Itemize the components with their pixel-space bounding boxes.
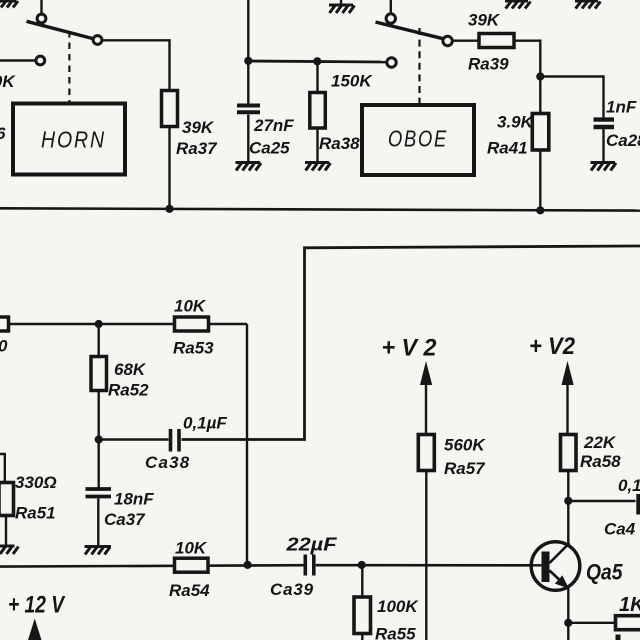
transistor base wire inside	[529, 564, 542, 566]
wire top to OBOE switch	[390, 0, 392, 14]
arrow +V2 second	[562, 361, 574, 435]
ground under Ra51	[0, 546, 19, 554]
switch S-oboe moving contact	[443, 36, 452, 45]
svg-text:1nF: 1nF	[606, 98, 637, 117]
wire Ra55 column	[361, 565, 363, 640]
base wire to transistor	[316, 564, 542, 567]
transistor collector line	[550, 543, 570, 563]
svg-text:Ra51: Ra51	[15, 504, 56, 523]
wire Ra39 to corner down	[514, 41, 540, 77]
switch S-oboe top contact	[386, 14, 395, 23]
svg-text:HORN: HORN	[41, 127, 106, 153]
svg-text:Ra52: Ra52	[108, 381, 149, 400]
wire top to Ca25 junction	[247, 0, 249, 104]
capacitor Ca28 plates	[594, 120, 615, 127]
svg-text:Ca38: Ca38	[145, 453, 190, 472]
node R437/bus	[165, 205, 173, 213]
svg-text:18nF: 18nF	[114, 490, 154, 509]
node Ra41/bus	[536, 206, 544, 214]
wire node to 1K	[568, 622, 616, 624]
svg-text:100K: 100K	[377, 597, 419, 616]
svg-text:22K: 22K	[583, 433, 617, 452]
svg-text:1K: 1K	[619, 594, 640, 616]
resistor Ra38 150K body	[310, 93, 326, 129]
svg-text:10K: 10K	[174, 297, 207, 316]
node Ca38 branch	[95, 435, 103, 443]
svg-text:3.9K: 3.9K	[497, 113, 535, 132]
svg-text:Ra38: Ra38	[319, 134, 360, 153]
transistor emitter arrow	[555, 575, 569, 588]
node Ca41 branch	[564, 497, 572, 505]
node Ra55 top	[358, 561, 366, 569]
ground under Ra38	[305, 163, 331, 171]
svg-text:27nF: 27nF	[253, 116, 294, 135]
wire contact to Ra39	[453, 40, 479, 42]
node Ca25 top	[244, 57, 252, 65]
ground under Ca28	[591, 163, 617, 171]
wire Ra51 to ground	[5, 516, 7, 546]
svg-text:150K: 150K	[0, 72, 16, 91]
wire node to Ca38	[99, 438, 169, 440]
svg-text:Ra53: Ra53	[173, 339, 214, 358]
svg-text:39K: 39K	[468, 11, 501, 30]
ground top-right 1	[505, 1, 531, 9]
ground under Ca37	[85, 547, 112, 555]
svg-text:Ca4: Ca4	[604, 520, 636, 539]
capacitor Ca25 plates	[237, 106, 260, 113]
capacitor Ca41 plate	[636, 494, 640, 515]
switch S-horn lever	[27, 21, 94, 38]
svg-text:0: 0	[0, 337, 8, 356]
resistor 1K body	[616, 616, 640, 630]
wire junction to OBOE lower contact	[248, 61, 386, 62]
svg-text:Ra54: Ra54	[169, 581, 210, 600]
ground top-right 2	[575, 1, 601, 9]
switch S-oboe lever	[376, 22, 444, 39]
svg-text:Ra39: Ra39	[468, 55, 509, 74]
resistor Ra55 100K body	[354, 597, 371, 634]
svg-text:+ V2: + V2	[529, 333, 576, 360]
switch S-horn top contact	[37, 14, 46, 23]
resistor Ra51 330 body	[0, 483, 14, 516]
svg-text:6: 6	[0, 124, 6, 143]
svg-text:68K: 68K	[114, 360, 147, 379]
wire node to Ra53 to corner	[99, 323, 247, 325]
resistor Ra57 560K body	[418, 435, 434, 471]
wire from top to HORN switch contact	[40, 0, 42, 14]
left resistor stub	[9, 323, 99, 325]
wire R437 bottom to bus	[168, 125, 170, 209]
svg-text:22µF: 22µF	[285, 535, 337, 555]
dashed switch link OBOE	[418, 28, 420, 103]
resistor (cut) body	[0, 317, 9, 331]
wire Ca28 to ground	[602, 129, 604, 162]
svg-text:Ra58: Ra58	[580, 452, 621, 471]
svg-text:+ 12 V: + 12 V	[8, 592, 66, 619]
resistor Ra41 3.9K body	[532, 114, 549, 151]
resistor Ra53 10K body	[175, 317, 209, 331]
wire Ra57 long column	[425, 434, 427, 640]
wire Ca25 to ground	[247, 115, 249, 163]
transistor base bar	[542, 552, 550, 583]
resistor Ra52 68K body	[91, 357, 107, 391]
resistor Ra58 22K body	[561, 435, 577, 471]
capacitor Ca39 plates	[305, 555, 314, 576]
ground top-middle	[329, 0, 355, 13]
wire Ra52 column	[97, 324, 99, 488]
bottom bus left segment	[0, 565, 304, 566]
emitter wire down	[567, 586, 569, 640]
resistor Ra39 39K body	[479, 34, 514, 48]
HORN lower contact circle	[36, 56, 45, 65]
OBOE lower contact	[387, 58, 396, 67]
svg-text:39K: 39K	[182, 118, 215, 137]
node Ra52 top	[95, 320, 103, 328]
svg-text:0,1µF: 0,1µF	[183, 414, 227, 433]
resistor Ra54 10K body	[175, 558, 209, 572]
top bus wire	[0, 208, 640, 210]
partial component bottom-right	[616, 635, 621, 640]
svg-text:Ca39: Ca39	[270, 580, 314, 599]
svg-text:Ra57: Ra57	[444, 459, 486, 478]
wire junction to Ca28	[540, 77, 603, 118]
ground top-left corner	[0, 1, 18, 8]
node Ra53/bus	[244, 561, 252, 569]
svg-text:10K: 10K	[175, 539, 208, 558]
svg-text:OBOE: OBOE	[388, 126, 448, 152]
svg-text:Ca25: Ca25	[249, 139, 290, 158]
ground under Ca25	[236, 163, 262, 171]
switch S-horn moving contact	[93, 36, 102, 45]
svg-text:560K: 560K	[444, 436, 486, 455]
transistor emitter line	[550, 571, 569, 589]
resistor Ra37 39K body	[162, 91, 178, 127]
wire to left edge	[0, 59, 35, 61]
transistor Qa5 circle	[531, 542, 580, 591]
arrow +V2 first	[420, 361, 432, 435]
HORN box	[13, 104, 125, 175]
svg-text:Ra37: Ra37	[176, 139, 218, 158]
wire node to Ca41	[568, 500, 635, 502]
long wire Ca38 to top-right	[182, 246, 640, 440]
svg-text:Ca37: Ca37	[104, 510, 146, 529]
wire Ra58 column	[567, 434, 569, 545]
svg-text:150K: 150K	[331, 72, 373, 91]
capacitor Ca37 plates	[86, 489, 112, 497]
node emitter/1K	[564, 619, 572, 627]
capacitor Ca38 plates	[171, 429, 180, 452]
dashed switch link HORN	[68, 31, 70, 102]
svg-text:330Ω: 330Ω	[15, 473, 57, 492]
svg-text:Ca28: Ca28	[606, 131, 640, 150]
svg-text:Ra55: Ra55	[375, 625, 416, 640]
wire stub to Ra51	[0, 454, 5, 483]
node Ra41 top	[536, 72, 544, 80]
wire switch to corner	[103, 40, 170, 92]
svg-text:0,1: 0,1	[618, 476, 640, 495]
OBOE box	[362, 105, 474, 175]
wire Ra41	[539, 77, 541, 211]
wire Ra38 top	[316, 61, 318, 94]
wire Ra38 to ground	[316, 128, 318, 162]
svg-text:Ra41: Ra41	[487, 139, 528, 158]
svg-text:+ V 2: + V 2	[382, 335, 438, 362]
wire Ca37 to ground	[97, 499, 99, 547]
wire Ra53 corner down to bus	[246, 324, 248, 565]
arrow +12V	[28, 619, 42, 640]
node Ra38 top	[313, 57, 321, 65]
svg-text:Qa5: Qa5	[586, 560, 623, 585]
